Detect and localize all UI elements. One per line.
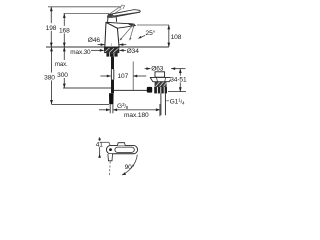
svg-text:90°: 90°	[125, 163, 135, 171]
svg-text:30: 30	[84, 49, 91, 56]
arrow to deck hole left	[91, 49, 104, 52]
hose end tube (G3/8)	[110, 104, 113, 113]
waste tailpipe	[161, 93, 166, 115]
hose end connector	[109, 93, 114, 104]
rod ball joint	[147, 87, 152, 93]
dimension 380 vertical line below deck	[50, 47, 109, 104]
pop-up waste flange bowl	[150, 77, 172, 81]
label max. 300	[56, 60, 69, 78]
svg-text:Ø63: Ø63	[151, 65, 164, 72]
faucet body outline	[105, 22, 119, 47]
bottom view: pivot dot	[109, 148, 112, 151]
dimension 107	[100, 75, 146, 78]
dimension 198 vertical line	[50, 7, 53, 47]
label 41	[95, 141, 104, 147]
arrow to deck hole right	[120, 49, 126, 52]
dimension max.300 vertical line below deck	[63, 47, 112, 88]
svg-text:25°: 25°	[146, 29, 156, 37]
spout wedge	[106, 22, 135, 28]
supply hoses	[111, 57, 114, 70]
svg-text:max.: max.	[55, 61, 68, 68]
deck cross-section hatched block	[104, 48, 119, 54]
svg-text:max.: max.	[70, 49, 84, 56]
svg-text:108: 108	[171, 34, 182, 41]
lever underside dark edge	[108, 12, 140, 17]
hidden hole line in body	[110, 43, 112, 47]
svg-text:34-51: 34-51	[170, 77, 187, 84]
extension line (spout/body height ref)	[64, 13, 110, 15]
dimension lines for diameter 63	[145, 67, 186, 70]
faucet neck	[108, 17, 117, 22]
pop-up waste plug cap	[155, 72, 165, 77]
pull rod horizontal link	[114, 89, 147, 91]
bottom view: handle capsule outline	[106, 145, 137, 153]
spout tip fill	[129, 23, 135, 27]
bottom view: inner lever outline	[115, 147, 134, 152]
dimension 34-51	[168, 69, 186, 92]
lever handle raised outline	[108, 5, 124, 16]
svg-text:168: 168	[59, 28, 70, 35]
label 168	[59, 26, 70, 34]
waste body hatched	[155, 82, 167, 87]
aerator ticks	[130, 26, 132, 27]
pop-up waste pull rod vertical	[132, 62, 134, 91]
extension step to capsule	[100, 142, 111, 146]
label 198	[46, 23, 57, 31]
mounting nut	[106, 53, 117, 57]
bottom view: nub below	[108, 154, 113, 161]
lever handle closed	[107, 10, 140, 18]
lever root dark	[107, 14, 114, 17]
waste locknut striped	[154, 87, 167, 93]
svg-text:Ø46: Ø46	[88, 37, 101, 44]
counter deck line	[46, 46, 169, 48]
svg-text:198: 198	[46, 25, 57, 32]
dimension max.180	[99, 104, 160, 116]
bottom view: spout bump	[117, 143, 125, 146]
dimension lines for diameter 46	[98, 43, 127, 46]
bottom view: 90 degree arc with arrow	[122, 155, 137, 175]
25-degree swing lines	[120, 24, 135, 41]
label 380	[44, 73, 56, 81]
svg-text:max.180: max.180	[124, 112, 149, 119]
svg-text:380: 380	[44, 75, 55, 82]
svg-text:107: 107	[117, 73, 128, 80]
bottom view: swivel dashed line	[108, 162, 111, 177]
dimension 108 (spout height)	[137, 24, 169, 26]
svg-text:Ø34: Ø34	[127, 48, 140, 55]
bottom view: dimension 41	[98, 137, 101, 158]
dimension 168 vertical line	[63, 14, 66, 48]
extension line top (lever raised height ref)	[48, 6, 120, 8]
svg-text:300: 300	[57, 72, 68, 79]
leader line for G1 1/4	[166, 100, 170, 102]
